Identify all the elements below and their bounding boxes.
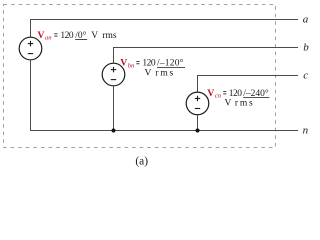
svg-text:V: V — [120, 58, 127, 69]
junction dot at c source on neutral — [196, 129, 200, 133]
voltage source Van — [19, 37, 42, 60]
svg-text:rms: rms — [102, 31, 117, 41]
svg-text:rms: rms — [155, 69, 175, 79]
wire: riser from source Van bottom to line n — [30, 60, 32, 130]
svg-text:V: V — [207, 88, 214, 99]
svg-text:c: c — [303, 69, 308, 81]
svg-text:V: V — [37, 30, 44, 41]
label Van value — [37, 30, 116, 42]
svg-text:b: b — [303, 41, 309, 53]
svg-text:a: a — [303, 13, 309, 25]
svg-text:/–240°: /–240° — [243, 88, 269, 99]
svg-text:cn: cn — [215, 93, 222, 100]
junction dot at b source on neutral — [112, 129, 116, 133]
voltage source Vcn — [186, 92, 209, 115]
svg-text:(a): (a) — [135, 155, 148, 167]
svg-text:V: V — [225, 99, 232, 109]
wire a — [30, 19, 298, 21]
svg-text:/–120°: /–120° — [157, 58, 184, 69]
svg-text:V: V — [145, 69, 152, 79]
wire b — [113, 47, 298, 49]
label Vbn value — [120, 58, 185, 79]
svg-text:120: 120 — [60, 31, 74, 41]
wire: riser from source Van top to line a — [30, 19, 32, 37]
svg-text:120: 120 — [229, 89, 243, 99]
svg-text:n: n — [303, 124, 309, 136]
wire: riser from source Vcn bottom to line n — [197, 115, 199, 130]
wire n (neutral) — [30, 130, 298, 132]
voltage source Vbn — [102, 63, 125, 86]
wire: riser from source Vcn top to line c — [197, 75, 199, 92]
svg-text:an: an — [45, 35, 52, 42]
dashed enclosure box — [4, 5, 276, 148]
svg-text:V: V — [91, 31, 98, 41]
label Vcn value — [207, 88, 269, 109]
svg-text:rms: rms — [235, 99, 255, 109]
wire: riser from source Vbn bottom to line n — [113, 86, 115, 130]
wire: riser from source Vbn top to line b — [113, 47, 115, 63]
svg-text:120: 120 — [142, 59, 156, 69]
svg-text:bn: bn — [128, 62, 135, 69]
wire c — [197, 75, 298, 77]
